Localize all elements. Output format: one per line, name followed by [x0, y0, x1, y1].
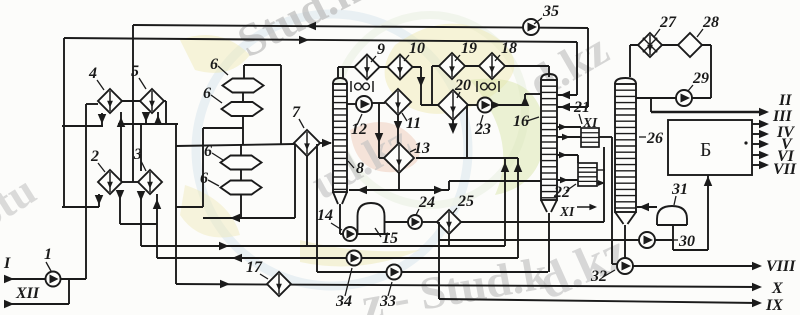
wire 29 lines — [636, 97, 711, 99]
svg-text:20: 20 — [454, 77, 471, 94]
pump 1 — [46, 272, 61, 287]
wire 23 right — [491, 101, 525, 110]
label 18 — [495, 40, 517, 61]
wire column8 bottom pipe — [340, 204, 343, 234]
svg-text:26: 26 — [646, 130, 663, 147]
svg-text:11: 11 — [406, 115, 421, 132]
pump 32 — [617, 258, 633, 274]
wire 25 right — [461, 221, 604, 223]
label 7 — [292, 104, 304, 128]
exchanger symbol b — [477, 81, 499, 92]
reactor 6 d — [221, 181, 262, 195]
pump 12 — [356, 96, 372, 112]
valve 19 — [439, 53, 465, 79]
wire 24 to 25 — [422, 221, 437, 223]
wire hex c top — [240, 145, 242, 156]
valve 3 — [138, 170, 162, 194]
label 14 — [317, 207, 342, 230]
unit 22 — [578, 163, 597, 186]
valve 20 — [438, 90, 468, 120]
label 26 — [639, 130, 663, 147]
svg-text:XI: XI — [582, 115, 598, 130]
wire hexblock bottom — [203, 144, 295, 222]
pump 35 — [523, 19, 539, 35]
label 25 — [453, 193, 474, 213]
label 33 — [379, 282, 396, 310]
wire between 2 3 — [122, 181, 138, 183]
svg-text:2: 2 — [90, 148, 99, 165]
svg-text:19: 19 — [461, 40, 477, 57]
reactor 6 a — [223, 79, 264, 93]
node XII inlet — [4, 279, 69, 308]
svg-text:16: 16 — [513, 113, 529, 130]
wire outlet V — [752, 136, 793, 153]
wire col16 to 21 b — [557, 134, 581, 141]
wire riser 518 — [514, 158, 523, 258]
svg-text:XI: XI — [559, 204, 575, 219]
unit 21 — [581, 128, 599, 147]
wire bus C — [176, 280, 762, 292]
node I inlet — [3, 255, 45, 283]
svg-text:15: 15 — [382, 230, 398, 247]
wire stub 5 left — [142, 112, 151, 124]
wire line VIII — [633, 258, 796, 275]
wire line II — [651, 98, 769, 116]
wire riser into col16 left — [521, 94, 541, 106]
valve 11 — [385, 89, 411, 115]
exchanger symbol a — [351, 81, 373, 92]
svg-text:I: I — [3, 255, 11, 272]
wire pump14 out — [357, 233, 390, 235]
wire XI arrow — [577, 204, 597, 210]
wire reactor header A — [338, 66, 421, 68]
wire branch feed down — [316, 144, 318, 272]
svg-text:27: 27 — [659, 14, 677, 31]
svg-text:10: 10 — [409, 40, 425, 57]
wire pump1 out — [61, 278, 86, 280]
wire header A drop — [417, 67, 426, 105]
svg-text:14: 14 — [317, 207, 333, 224]
pump 34 — [347, 251, 362, 266]
label 6 a — [210, 56, 228, 75]
label 10 — [404, 40, 425, 61]
wire hex c-d — [240, 169, 242, 181]
svg-text:6: 6 — [200, 170, 208, 187]
wire col16 to 21 a — [557, 124, 581, 131]
valve 2 — [98, 170, 122, 194]
wire 30 out — [655, 239, 672, 241]
wire 31 to col26 — [637, 203, 657, 212]
svg-text:IX: IX — [765, 297, 783, 314]
wire stub 3 right — [153, 194, 162, 258]
label 8 — [348, 160, 364, 177]
wire stub 2 left — [95, 194, 104, 207]
wire 20 to 23 — [468, 104, 477, 106]
svg-text:7: 7 — [292, 104, 301, 121]
wire drop 612 — [612, 137, 617, 264]
wire left frame — [62, 38, 99, 279]
wire stub 5 right — [154, 112, 163, 125]
wire 13 down — [398, 173, 400, 191]
wire hex d down — [240, 194, 242, 218]
valve 10 — [388, 55, 413, 80]
label 23 — [474, 115, 491, 138]
wire under-4 header — [62, 125, 103, 127]
svg-text:Б: Б — [700, 139, 711, 161]
svg-text:III: III — [772, 108, 792, 125]
label 29 — [688, 70, 709, 91]
wire 12 branch to 13 — [375, 103, 384, 158]
wire line IX — [439, 287, 783, 314]
svg-text:VIII: VIII — [766, 258, 796, 275]
label 22 — [553, 184, 576, 201]
wire column8 neck — [338, 67, 343, 79]
label 6 c — [204, 143, 223, 160]
separator 28 — [678, 33, 702, 57]
wire line 105 — [421, 104, 438, 106]
label II — [778, 92, 792, 109]
svg-text:6: 6 — [203, 85, 211, 102]
label 2 — [90, 148, 105, 172]
wire top recycle line — [133, 22, 588, 182]
pump 30 — [639, 232, 655, 248]
valve 9 — [355, 55, 380, 80]
wire drop 439 — [438, 222, 440, 299]
svg-text:29: 29 — [692, 70, 709, 87]
wire under-5 header — [118, 123, 178, 125]
valve 27 — [638, 33, 662, 57]
wire 7 to column 8 — [320, 139, 332, 148]
label 21 — [573, 99, 590, 124]
wire between 4 5 — [122, 100, 140, 102]
valve 17 — [267, 272, 291, 296]
pump 23 — [478, 98, 493, 113]
svg-text:31: 31 — [671, 181, 688, 198]
svg-text:30: 30 — [678, 233, 695, 250]
wire hexblock top — [244, 65, 281, 144]
wire stub 2 right — [116, 190, 157, 224]
svg-text:3: 3 — [133, 146, 142, 163]
svg-text:8: 8 — [356, 160, 364, 177]
svg-text:24: 24 — [418, 194, 435, 211]
wire outlet IV — [752, 124, 795, 141]
label 9 — [371, 41, 385, 62]
svg-text:X: X — [771, 280, 783, 297]
wire col8 to 12 — [347, 103, 356, 105]
svg-text:23: 23 — [474, 121, 491, 138]
wire drop to valve 3 — [140, 124, 142, 171]
svg-text:25: 25 — [457, 193, 474, 210]
wire 5 right staircase — [163, 101, 294, 284]
wire drop 467 — [466, 105, 468, 158]
wire drop 604 — [603, 147, 605, 222]
wire top recycle drop right — [557, 28, 588, 111]
wire bus 272 — [317, 271, 548, 273]
wire top feed drop right — [557, 42, 577, 99]
label 11 — [402, 113, 421, 132]
valve 4 — [98, 89, 122, 113]
drum 15 — [358, 203, 385, 234]
wire riser 505 — [501, 158, 510, 246]
wire col16 to 22 — [557, 152, 578, 163]
wire stub 4 left — [98, 113, 107, 126]
wire 7 down — [306, 156, 308, 246]
column 8 — [333, 78, 347, 204]
wire stub 3 left — [137, 191, 146, 246]
svg-text:35: 35 — [542, 3, 559, 20]
label 15 — [375, 228, 398, 247]
svg-text:1: 1 — [44, 246, 52, 263]
svg-text:XII: XII — [15, 285, 40, 302]
svg-text:17: 17 — [246, 259, 263, 276]
wire stub 4 right drop — [117, 112, 126, 182]
pump 29 — [676, 90, 692, 106]
svg-text:18: 18 — [501, 40, 517, 57]
wire 12 to 11 — [372, 102, 385, 104]
wire hex left branch — [176, 128, 243, 207]
svg-text:28: 28 — [702, 14, 719, 31]
wire outlet VII — [752, 161, 797, 178]
furnace 31 — [657, 206, 687, 225]
label 6 b — [203, 85, 222, 103]
label 5 — [131, 63, 146, 89]
wire header into column16 — [548, 66, 550, 77]
wire reactor header B — [432, 65, 549, 67]
label 31 — [671, 181, 688, 205]
pump 24 — [408, 215, 422, 229]
label 20 — [454, 77, 471, 98]
wire 25 drop — [448, 234, 450, 246]
svg-text:9: 9 — [377, 41, 385, 58]
wire outlet III — [752, 108, 792, 128]
svg-text:6: 6 — [210, 56, 218, 73]
label XI a — [582, 115, 598, 130]
wire line 240 — [439, 239, 639, 241]
pump 33 — [387, 265, 402, 280]
wire 30 loop — [673, 174, 708, 250]
svg-text:13: 13 — [414, 140, 430, 157]
wire 22 out b — [597, 180, 605, 186]
wire col16 to 22 low — [557, 177, 578, 184]
label 27 — [654, 14, 677, 37]
svg-text:5: 5 — [131, 63, 139, 80]
label 12 — [351, 114, 367, 138]
svg-text:12: 12 — [351, 121, 367, 138]
reactor 6 b — [222, 102, 263, 116]
unit B — [668, 120, 752, 175]
wire hex a-b — [242, 92, 244, 102]
label 13 — [410, 140, 430, 157]
label X — [771, 280, 783, 297]
wire 11 to 13 — [394, 115, 403, 143]
valve 25 — [437, 210, 461, 234]
label 30 — [672, 233, 695, 250]
svg-text:34: 34 — [335, 293, 352, 310]
svg-text:21: 21 — [573, 99, 590, 116]
wire line 190 — [349, 181, 541, 194]
wire 22 out a — [597, 169, 605, 171]
wire bus B — [157, 254, 518, 263]
label 34 — [335, 268, 352, 310]
column 16 — [541, 74, 557, 212]
wire arrow into B — [704, 176, 713, 186]
wire header B riser — [431, 66, 433, 105]
valve 18 — [479, 53, 505, 79]
svg-text:II: II — [778, 92, 792, 109]
wire col26 bottom pipe — [624, 225, 626, 258]
label 1 — [44, 246, 52, 271]
label 28 — [697, 14, 719, 37]
wire 20 down arrow — [448, 120, 457, 134]
label 17 — [246, 259, 268, 279]
label 24 — [416, 194, 435, 215]
svg-text:VII: VII — [773, 161, 797, 178]
svg-text:4: 4 — [88, 65, 97, 82]
reactor 6 c — [221, 156, 262, 170]
label 16 — [513, 113, 539, 130]
wire top feed line — [64, 36, 577, 45]
wire bus A — [141, 242, 505, 251]
valve 7 — [294, 130, 320, 156]
wire overhead line — [630, 45, 711, 98]
label 35 — [534, 3, 559, 24]
wire dome15 to 24 — [384, 221, 408, 223]
label 4 — [88, 65, 104, 90]
wire col16 bottom pipe — [548, 213, 550, 272]
label 32 — [590, 268, 615, 285]
wire hex b down — [242, 116, 244, 144]
valve 5 — [140, 89, 164, 113]
label 19 — [455, 40, 477, 61]
wire 21 out — [599, 136, 612, 138]
svg-text:22: 22 — [553, 184, 570, 201]
label 6 d — [200, 170, 219, 187]
label XI b — [559, 204, 575, 219]
svg-text:6: 6 — [204, 143, 212, 160]
valve 13 — [384, 143, 414, 173]
pump 14 — [343, 227, 357, 241]
wire line 158 — [416, 157, 518, 159]
wire outlet VI — [752, 148, 795, 165]
label 3 — [133, 146, 146, 171]
column 26 — [615, 78, 636, 224]
